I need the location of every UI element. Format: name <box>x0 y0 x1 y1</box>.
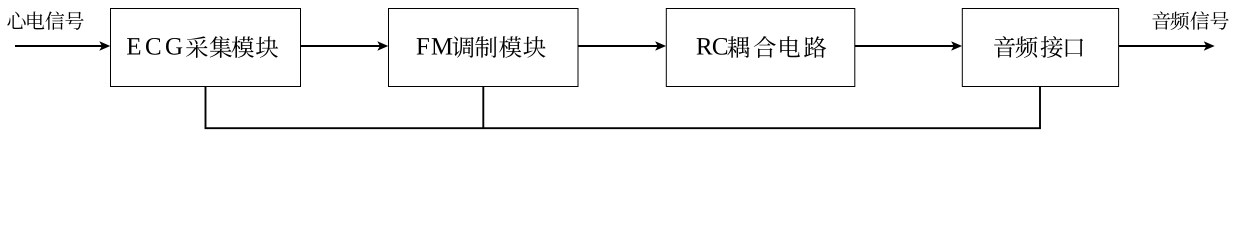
block U1 ECG采集模块 box <box>111 9 301 87</box>
wire arrow RC network to audio interface <box>855 41 962 51</box>
block U2 FM调制模块 box <box>389 9 579 87</box>
wire stub from FM module bottom to bus <box>482 87 484 129</box>
node 音频信号 output signal label <box>1152 11 1228 30</box>
label FM调制模块 <box>417 36 546 58</box>
wire stub from ECG module bottom to bus <box>205 87 207 129</box>
node 心电信号 input signal label <box>7 11 83 30</box>
block U4 音频接口 box <box>962 9 1118 87</box>
wire output arrow from audio interface <box>1119 41 1215 51</box>
label ECG采集模块 <box>127 36 278 58</box>
wire input arrow into ECG module <box>15 41 110 51</box>
block U3 RC耦合电路 box <box>666 9 855 87</box>
wire common bottom bus <box>205 127 1041 129</box>
wire stub from audio interface bottom to bus <box>1039 87 1041 129</box>
label RC耦合电路 <box>697 36 827 58</box>
wire arrow FM module to RC network <box>578 41 666 51</box>
label 音频接口 <box>994 36 1083 58</box>
wire arrow ECG module to FM module <box>301 41 389 51</box>
